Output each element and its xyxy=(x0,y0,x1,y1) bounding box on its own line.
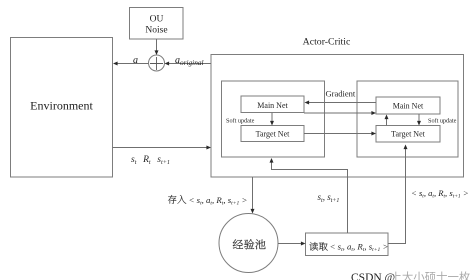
svg-text:< st, at, Rt, st+1 >: < st, at, Rt, st+1 > xyxy=(411,188,469,200)
wire store transition to pool xyxy=(252,177,254,210)
arrowhead into Environment xyxy=(113,62,118,66)
wire Environment state to Actor-Critic xyxy=(113,147,208,149)
svg-text:CSDN @: CSDN @ xyxy=(351,272,395,280)
wire a_original from Actor-Critic to sum xyxy=(168,63,211,65)
circle experience pool xyxy=(219,214,278,273)
wire sum to Environment (action a) xyxy=(117,63,149,65)
wire OU to sum xyxy=(156,39,158,52)
arrowhead into pool top xyxy=(251,209,255,214)
arrowhead into Actor-Critic left edge xyxy=(206,146,211,150)
label read box xyxy=(309,242,318,251)
arrowhead critic down into TargetNet xyxy=(417,121,421,126)
wire gradient critic MainNet to actor MainNet xyxy=(308,102,376,104)
svg-text:Actor-Critic: Actor-Critic xyxy=(303,37,351,48)
label pool xyxy=(233,239,243,248)
arrowhead gradient into actor MainNet xyxy=(305,101,310,105)
box Actor-Critic outer xyxy=(211,55,464,178)
arrowhead into read box xyxy=(301,242,306,246)
arrowhead up into critic TargetNet bottom xyxy=(404,145,408,150)
box actor Main Net xyxy=(241,96,304,113)
box read (du qu) xyxy=(306,233,389,256)
wire actor MainNet to critic MainNet xyxy=(304,112,373,114)
arrowhead actor soft update down xyxy=(270,121,274,126)
wire read box up-left to actor group xyxy=(272,162,348,234)
wire critic TargetNet up to MainNet xyxy=(386,118,388,126)
arrowhead into sum from OU xyxy=(155,50,159,55)
arrowhead into sum from actor xyxy=(165,62,170,66)
wire critic MainNet down to TargetNet xyxy=(418,114,420,122)
box critic group xyxy=(357,81,458,157)
svg-text:Target Net: Target Net xyxy=(256,129,291,138)
summing junction circle xyxy=(149,55,165,71)
wire pool to read box xyxy=(278,243,302,245)
svg-text:OU: OU xyxy=(150,15,164,25)
svg-text:Main Net: Main Net xyxy=(257,101,288,110)
svg-text:Environment: Environment xyxy=(30,99,93,113)
wire read box right up to critic TargetNet xyxy=(388,148,406,244)
wire actor MainNet to TargetNet soft update xyxy=(271,113,273,122)
svg-text:< st, at, Rt, st+1 >: < st, at, Rt, st+1 > xyxy=(330,242,389,254)
svg-text:a: a xyxy=(133,55,138,66)
arrowhead up into actor group bottom xyxy=(270,158,274,163)
label store transition xyxy=(168,195,176,204)
box Environment xyxy=(11,38,113,178)
svg-text:Soft update: Soft update xyxy=(428,118,457,125)
box actor Target Net xyxy=(241,126,304,142)
svg-text:Target Net: Target Net xyxy=(391,129,426,138)
svg-text:Soft update: Soft update xyxy=(226,118,255,125)
arrowhead into critic MainNet left xyxy=(371,111,376,115)
box critic Main Net xyxy=(376,97,440,114)
box OU Noise xyxy=(130,8,184,40)
svg-text:< st, at, Rt, st+1 >: < st, at, Rt, st+1 > xyxy=(189,195,248,207)
box actor group xyxy=(222,81,325,157)
arrowhead critic up into MainNet xyxy=(385,115,389,120)
arrowhead into critic TargetNet left xyxy=(371,132,376,136)
svg-text:Gradient: Gradient xyxy=(326,89,356,99)
wire actor TargetNet to critic TargetNet xyxy=(304,133,373,135)
box critic Target Net xyxy=(376,126,440,143)
svg-text:Main Net: Main Net xyxy=(393,102,424,111)
svg-text:Noise: Noise xyxy=(145,26,167,36)
